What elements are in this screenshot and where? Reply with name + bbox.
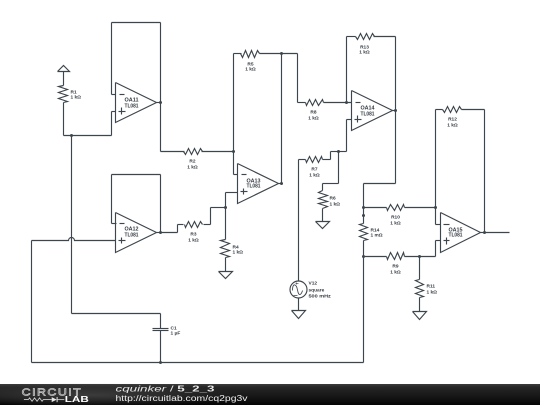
svg-text:1 kΩ: 1 kΩ [71, 95, 82, 101]
svg-text:1 kΩ: 1 kΩ [447, 123, 458, 129]
svg-text:1 kΩ: 1 kΩ [390, 270, 401, 276]
svg-text:square: square [309, 288, 325, 294]
svg-text:OA11: OA11 [125, 98, 139, 104]
svg-text:1 kΩ: 1 kΩ [359, 50, 370, 56]
svg-text:R14: R14 [371, 228, 380, 234]
svg-text:1 kΩ: 1 kΩ [233, 250, 244, 256]
svg-text:TL081: TL081 [125, 233, 139, 239]
svg-text:1 kΩ: 1 kΩ [330, 202, 341, 208]
svg-text:R2: R2 [189, 159, 195, 165]
svg-text:R3: R3 [190, 232, 196, 238]
svg-text:OA12: OA12 [125, 227, 139, 233]
svg-text:R5: R5 [247, 62, 253, 68]
svg-text:TL081: TL081 [247, 184, 261, 190]
svg-text:R11: R11 [427, 284, 436, 290]
svg-text:1 mΩ: 1 mΩ [371, 233, 383, 239]
svg-text:OA14: OA14 [361, 106, 375, 112]
svg-text:500 mHz: 500 mHz [309, 294, 332, 300]
svg-text:R9: R9 [392, 264, 398, 270]
svg-text:1 kΩ: 1 kΩ [308, 116, 319, 122]
svg-text:R12: R12 [448, 117, 457, 123]
svg-text:http://circuitlab.com/cq2pg3v: http://circuitlab.com/cq2pg3v [116, 394, 248, 403]
svg-text:C1: C1 [171, 326, 177, 332]
svg-text:1 kΩ: 1 kΩ [390, 221, 401, 227]
svg-text:cquinker / 5_2_3: cquinker / 5_2_3 [116, 384, 216, 393]
svg-text:R7: R7 [311, 167, 317, 173]
svg-text:1 kΩ: 1 kΩ [245, 67, 256, 73]
svg-text:1 kΩ: 1 kΩ [427, 290, 438, 296]
svg-text:R4: R4 [233, 245, 239, 251]
svg-text:1 kΩ: 1 kΩ [188, 238, 199, 244]
svg-text:1 kΩ: 1 kΩ [309, 173, 320, 179]
svg-text:R6: R6 [330, 196, 336, 202]
svg-text:R8: R8 [310, 110, 316, 116]
svg-text:TL081: TL081 [125, 104, 139, 110]
svg-text:1 μF: 1 μF [171, 331, 181, 337]
svg-text:V12: V12 [309, 281, 318, 287]
svg-text:R1: R1 [71, 90, 77, 96]
svg-text:TL081: TL081 [449, 233, 463, 239]
svg-text:TL081: TL081 [361, 112, 375, 118]
svg-text:LAB: LAB [65, 395, 89, 404]
svg-text:R13: R13 [360, 45, 369, 51]
svg-text:1 kΩ: 1 kΩ [187, 165, 198, 171]
svg-text:R10: R10 [391, 215, 400, 221]
